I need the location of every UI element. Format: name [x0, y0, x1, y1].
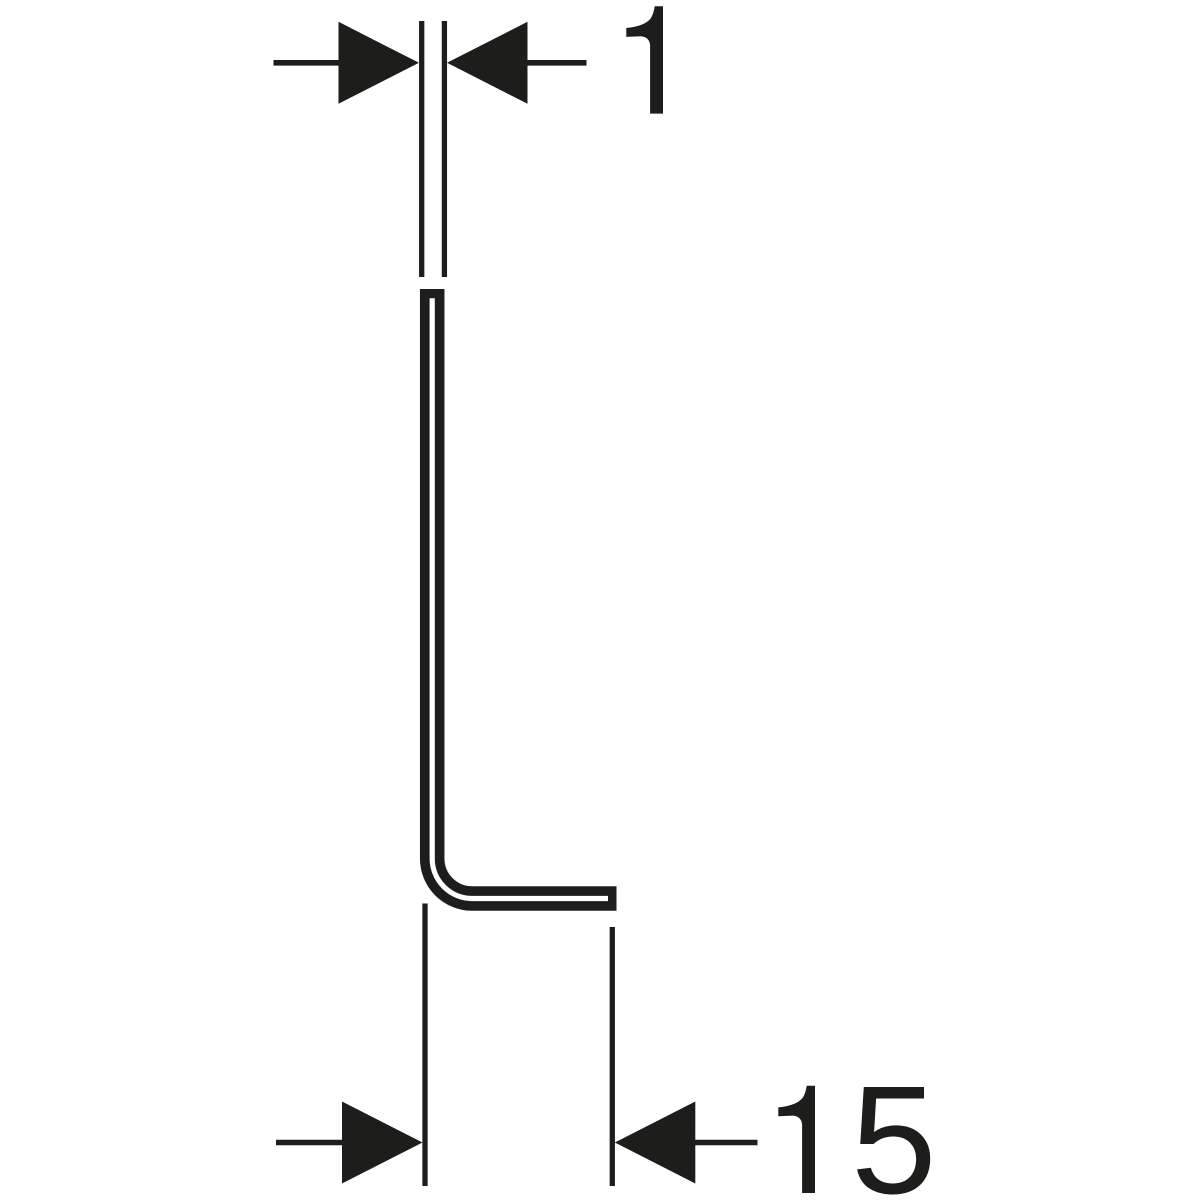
L-profile cross-section inner (white core line) [432, 298, 608, 898]
L-profile cross-section outer (black body) [432, 289, 616, 899]
arrowhead left (pointing right, width dim) [342, 1102, 423, 1184]
arrowhead right (pointing left, width dim) [615, 1102, 696, 1184]
extension line left (thickness dim) [419, 21, 424, 277]
dimension tail line left (width dim) [276, 1140, 344, 1146]
arrowhead right (pointing left) [447, 22, 528, 104]
dimension tail line left (thickness dim) [274, 60, 341, 66]
dimension tail line right (thickness dim) [527, 60, 587, 66]
dimension tail line right (width dim) [694, 1140, 757, 1146]
value label "15" (width, mm): digit 1 [778, 1086, 815, 1193]
extension line right (width dim 15) [610, 927, 615, 1186]
extension line left (width dim 15) [422, 904, 427, 1187]
svg-text:5: 5 [851, 1054, 937, 1200]
extension line right (thickness dim) [442, 21, 447, 277]
value label "15" (width, mm): digit 5 [851, 1054, 937, 1200]
arrowhead left (pointing right) [339, 22, 420, 104]
value label "1" (thickness, mm) [626, 6, 663, 113]
